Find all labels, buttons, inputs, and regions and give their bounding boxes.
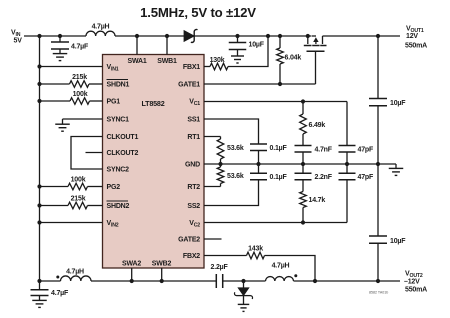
resistor R1 130k xyxy=(204,34,270,70)
svg-text:2.2µF: 2.2µF xyxy=(211,264,229,271)
wire VIN1 xyxy=(37,64,102,68)
resistor R3 6.49k xyxy=(300,102,326,146)
svg-text:5V: 5V xyxy=(14,38,23,45)
title xyxy=(140,5,256,20)
svg-text:2.2nF: 2.2nF xyxy=(315,174,333,181)
node VIN input label xyxy=(11,30,22,45)
wire L2 to C11 xyxy=(91,280,216,282)
ground SYNC1 xyxy=(55,124,70,131)
capacitor C4 10uF xyxy=(369,236,406,245)
svg-text:10µF: 10µF xyxy=(390,100,406,107)
wire GATE1 xyxy=(204,82,316,86)
capacitor C12 4.7uF xyxy=(31,281,69,300)
svg-text:4.7nF: 4.7nF xyxy=(315,147,333,154)
wire bottom rail left xyxy=(37,279,60,283)
wire SYNC1 to ground xyxy=(63,119,103,124)
svg-text:RT1: RT1 xyxy=(187,134,200,141)
svg-text:SHDN2: SHDN2 xyxy=(107,203,130,210)
wire VIN to inductor L1 xyxy=(24,35,86,37)
note id xyxy=(369,291,388,295)
node VOUT1 label xyxy=(376,26,427,50)
resistor R_SHDN1 215k xyxy=(37,74,102,87)
wire VOUT1 down xyxy=(377,36,379,99)
resistor R7 143k xyxy=(204,246,317,284)
svg-text:4.7µH: 4.7µH xyxy=(272,263,290,270)
svg-text:4.7µH: 4.7µH xyxy=(66,268,84,275)
ground D2 xyxy=(238,304,250,311)
inductor L1 4.7uH xyxy=(86,23,115,36)
capacitor C10 47pF xyxy=(339,164,374,223)
svg-text:8582 TA01b: 8582 TA01b xyxy=(369,291,388,295)
inductor L2 4.7uH xyxy=(56,268,91,281)
node VOUT2 label xyxy=(404,271,427,294)
resistor R5 53.6k xyxy=(204,164,244,187)
svg-text:100k: 100k xyxy=(71,177,86,184)
wire C4 to VOUT2 xyxy=(376,243,380,283)
svg-text:10µF: 10µF xyxy=(390,238,406,245)
svg-text:14.7k: 14.7k xyxy=(309,197,326,204)
svg-text:47pF: 47pF xyxy=(358,147,374,154)
wire C11 to D2 node xyxy=(223,279,246,283)
capacitor C7 0.1uF xyxy=(204,119,287,164)
resistor R_PG1 100k xyxy=(37,91,102,104)
wire L3 to VOUT2 xyxy=(294,280,401,282)
wire input bus vertical xyxy=(39,36,41,281)
svg-text:4.7µF: 4.7µF xyxy=(51,290,69,297)
op-amp U1 LT8582 xyxy=(103,55,205,269)
capacitor C8 0.1uF xyxy=(204,164,287,206)
svg-text:PG2: PG2 xyxy=(107,184,121,191)
svg-text:SWB2: SWB2 xyxy=(152,261,172,268)
ground C2 xyxy=(231,56,244,63)
ground GND rail xyxy=(389,164,404,175)
svg-text:FBX1: FBX1 xyxy=(183,64,200,71)
resistor R6 14.7k xyxy=(300,180,326,223)
wire SWA1 pin xyxy=(135,34,139,55)
resistor R_PG2 100k xyxy=(37,177,102,190)
diode D1 schottky xyxy=(184,29,198,42)
capacitor C9 2.2nF xyxy=(295,164,333,181)
capacitor C5 4.7nF xyxy=(295,146,333,165)
wire VC1 xyxy=(204,99,347,103)
svg-text:10µF: 10µF xyxy=(249,42,265,49)
svg-text:PG1: PG1 xyxy=(107,99,121,106)
svg-text:130k: 130k xyxy=(210,57,225,64)
svg-text:GATE1: GATE1 xyxy=(178,82,200,89)
svg-text:SWA2: SWA2 xyxy=(122,261,141,268)
svg-text:6.49k: 6.49k xyxy=(309,122,326,129)
ground C1 xyxy=(53,54,68,61)
wire GND rail xyxy=(204,162,396,166)
svg-text:SYNC2: SYNC2 xyxy=(107,167,130,174)
svg-text:215k: 215k xyxy=(72,74,87,81)
junction input node xyxy=(37,34,62,38)
capacitor C2 10uF xyxy=(229,34,265,56)
svg-text:215k: 215k xyxy=(71,196,86,203)
svg-text:6.04k: 6.04k xyxy=(285,55,302,62)
svg-text:RT2: RT2 xyxy=(187,184,200,191)
ground C12 xyxy=(32,300,47,307)
svg-text:1.5MHz, 5V to ±12V: 1.5MHz, 5V to ±12V xyxy=(140,5,256,20)
capacitor C1 4.7uF xyxy=(51,36,89,53)
svg-text:12V: 12V xyxy=(406,33,418,40)
wire CLKOUT1 to SYNC2 xyxy=(71,137,103,170)
wire SWB2 pin xyxy=(160,268,164,283)
svg-text:SWA1: SWA1 xyxy=(127,58,146,65)
svg-text:4.7µH: 4.7µH xyxy=(92,23,110,30)
svg-text:LT8582: LT8582 xyxy=(141,99,164,108)
svg-text:SHDN1: SHDN1 xyxy=(107,82,130,89)
svg-text:550mA: 550mA xyxy=(405,43,427,50)
capacitor C11 2.2uF xyxy=(211,264,229,288)
svg-text:GATE2: GATE2 xyxy=(178,237,200,244)
wire CLKOUT2 stub xyxy=(86,152,103,154)
svg-text:4.7µF: 4.7µF xyxy=(71,44,89,51)
wire SWA2 pin xyxy=(130,268,134,283)
svg-text:CLKOUT1: CLKOUT1 xyxy=(107,134,139,141)
svg-text:SS2: SS2 xyxy=(187,203,200,210)
svg-text:SYNC1: SYNC1 xyxy=(107,117,130,124)
wire VIN2 xyxy=(37,220,102,224)
wire Q1 drain to VOUT1 xyxy=(323,35,401,37)
svg-text:GND: GND xyxy=(185,162,200,169)
svg-text:0.1µF: 0.1µF xyxy=(270,145,288,152)
svg-text:–12V: –12V xyxy=(404,279,420,286)
resistor R2 6.04k xyxy=(277,34,302,84)
wire D1 to transistor Q1 xyxy=(194,35,311,37)
svg-text:47pF: 47pF xyxy=(358,174,374,181)
wire C3 to GND rail xyxy=(376,106,380,166)
resistor R_SHDN2 215k xyxy=(37,196,102,209)
svg-text:FBX2: FBX2 xyxy=(183,253,200,260)
svg-text:550mA: 550mA xyxy=(405,287,427,294)
svg-text:SS1: SS1 xyxy=(187,117,200,124)
svg-text:SWB1: SWB1 xyxy=(157,58,177,65)
wire SWB1 pin xyxy=(165,34,169,55)
svg-text:53.6k: 53.6k xyxy=(227,145,244,152)
svg-text:53.6k: 53.6k xyxy=(227,173,244,180)
transistor Q1 PMOS xyxy=(304,34,327,84)
svg-text:CLKOUT2: CLKOUT2 xyxy=(107,150,139,157)
diode D2 schottky xyxy=(234,281,252,304)
wire VC2 xyxy=(204,220,347,224)
svg-text:143k: 143k xyxy=(248,246,263,253)
svg-text:0.1µF: 0.1µF xyxy=(270,174,288,181)
capacitor C6 47pF xyxy=(339,102,374,165)
capacitor C3 10uF xyxy=(369,99,406,108)
resistor R4 53.6k xyxy=(204,137,244,165)
wire GND rail down xyxy=(377,164,379,236)
wire L1 to diode D1 xyxy=(115,35,184,37)
inductor L3 4.7uH xyxy=(244,263,298,282)
svg-text:100k: 100k xyxy=(73,91,88,98)
wire GATE2 stub xyxy=(204,238,222,240)
